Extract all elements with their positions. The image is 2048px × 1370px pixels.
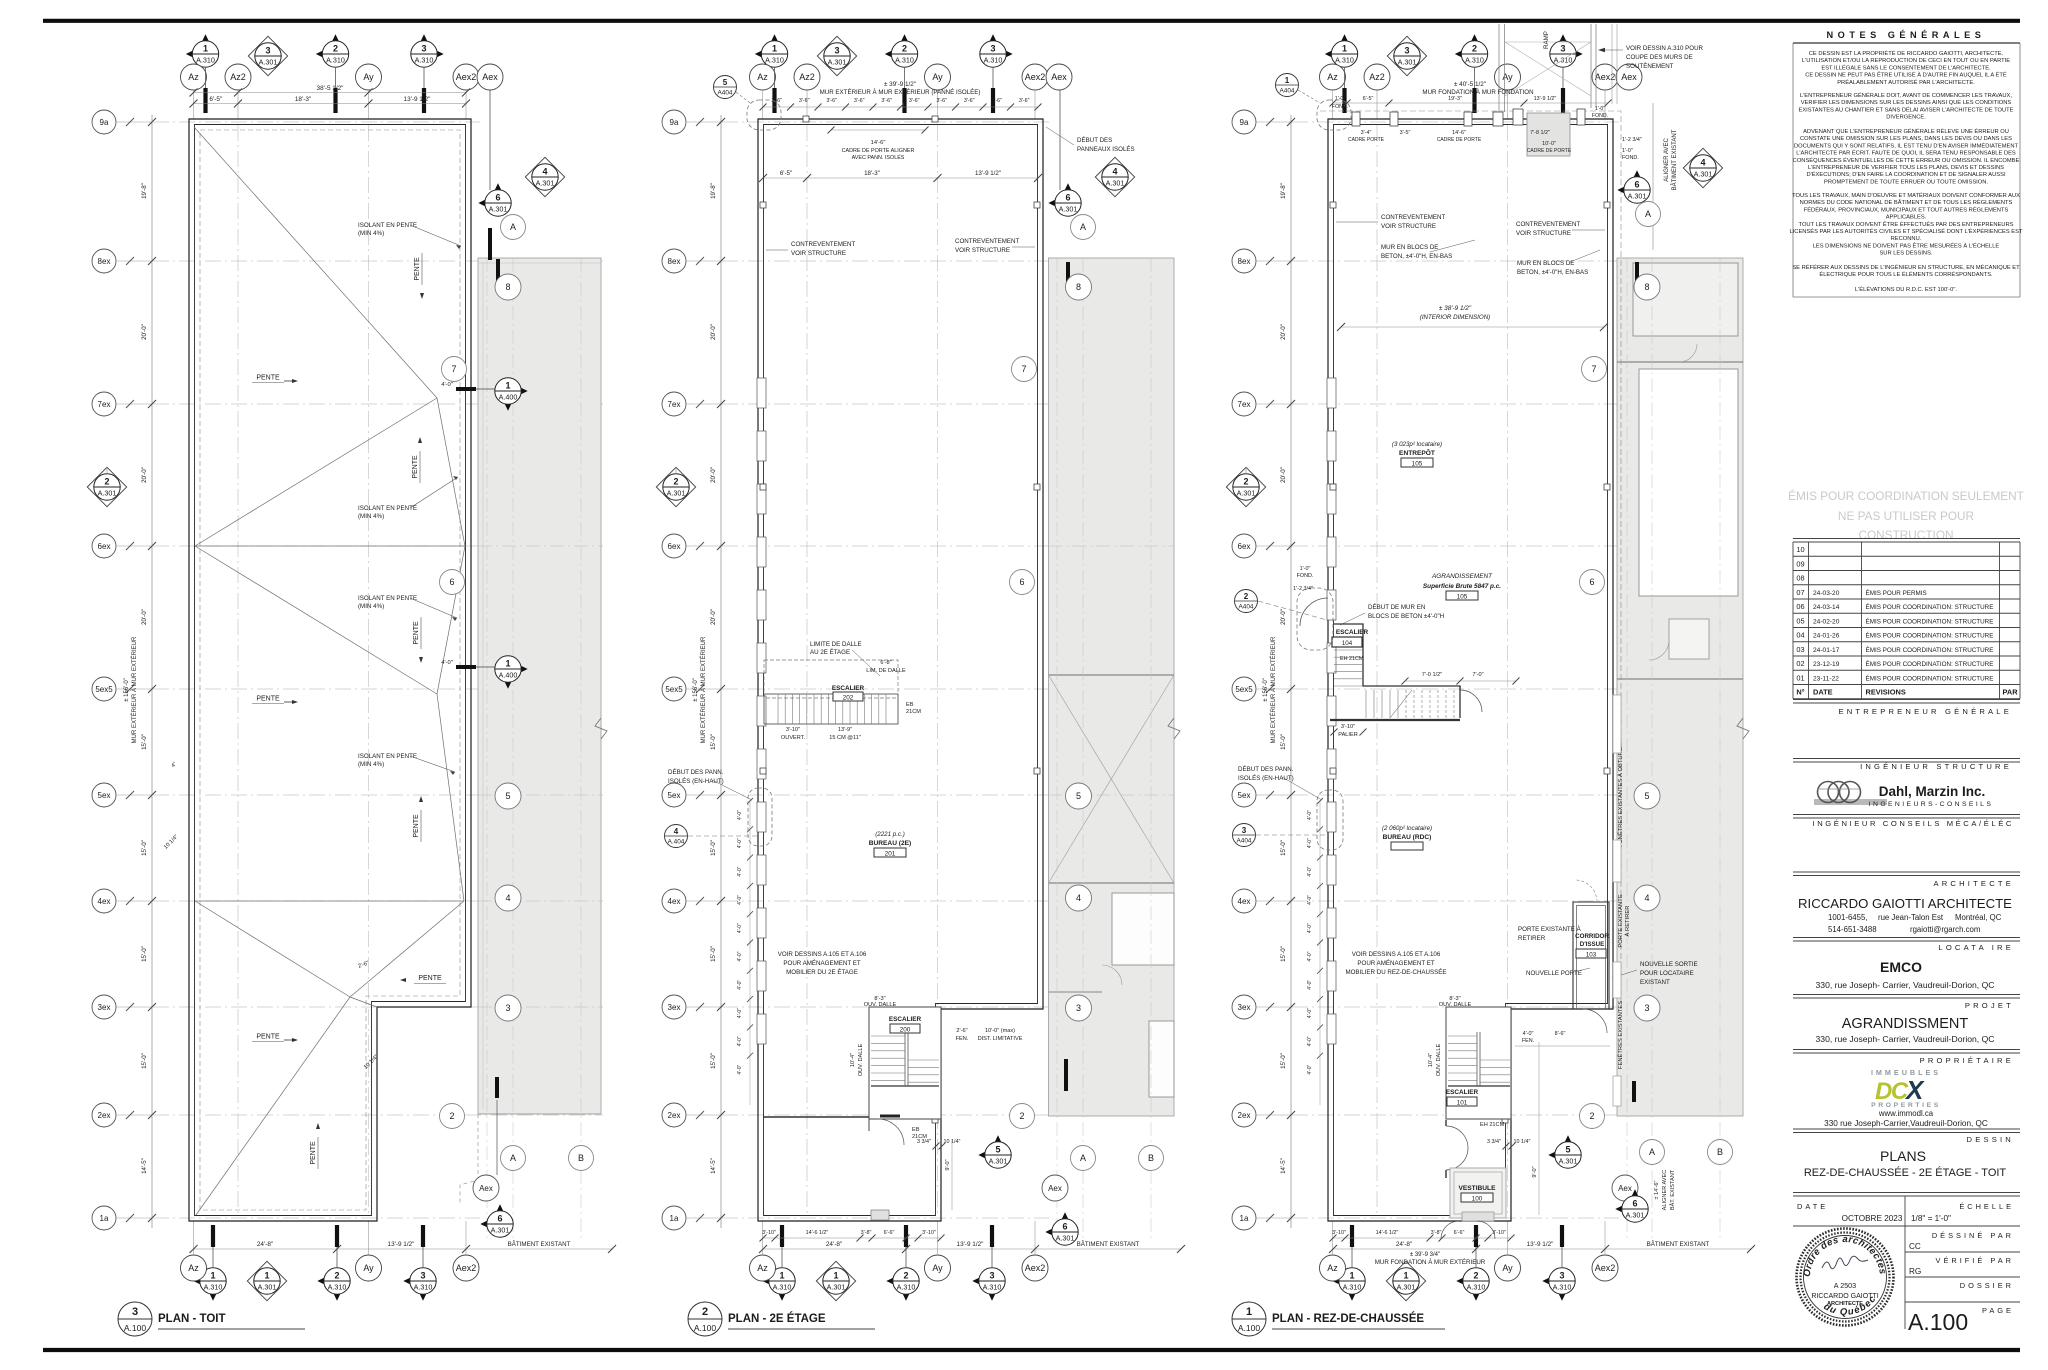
svg-text:ESCALIER: ESCALIER (832, 685, 865, 692)
svg-text:A.310: A.310 (415, 56, 434, 65)
svg-text:FENÊTRES EXISTANTES: FENÊTRES EXISTANTES (1616, 1001, 1624, 1069)
svg-text:FOND.: FOND. (1297, 573, 1314, 579)
svg-text:Az2: Az2 (230, 72, 246, 82)
svg-text:± 156'-0": ± 156'-0" (1263, 678, 1269, 702)
svg-text:8: 8 (1644, 282, 1649, 292)
svg-text:13'-9 1/2": 13'-9 1/2" (1534, 96, 1557, 102)
svg-text:13'-9 1/2": 13'-9 1/2" (957, 1241, 984, 1248)
svg-text:VOIR STRUCTURE: VOIR STRUCTURE (1381, 223, 1436, 230)
svg-text:EH 21CM: EH 21CM (1340, 656, 1364, 662)
svg-text:4'-0": 4'-0" (737, 838, 743, 848)
svg-text:9a: 9a (100, 118, 109, 127)
svg-text:4'-0": 4'-0" (737, 1008, 743, 1018)
svg-text:15'-0": 15'-0" (1280, 840, 1287, 856)
svg-text:OUV. DALLE: OUV. DALLE (864, 1002, 897, 1008)
svg-text:BÂTIMENT EXISTANT: BÂTIMENT EXISTANT (508, 1241, 571, 1248)
svg-text:± 14'-6": ± 14'-6" (1654, 1181, 1660, 1200)
interior vertical grid lines (237, 125, 239, 1215)
svg-text:8'-6": 8'-6" (1555, 1031, 1566, 1037)
svg-text:A.310: A.310 (983, 1283, 1002, 1292)
top grid bubbles (1325, 45, 1345, 64)
svg-text:10'-4": 10'-4" (1428, 1053, 1434, 1067)
svg-text:NORMES DU CODE NATIONAL DE BÂT: NORMES DU CODE NATIONAL DE BÂTIMENT ET D… (1800, 199, 2013, 206)
svg-text:OUV. DALLE: OUV. DALLE (1439, 1002, 1472, 1008)
svg-text:BÂTIMENT EXISTANT: BÂTIMENT EXISTANT (1647, 1241, 1710, 1248)
plan3 right side circles (1582, 357, 1607, 382)
svg-text:6ex: 6ex (98, 542, 111, 551)
svg-text:1: 1 (1403, 1271, 1408, 1281)
svg-text:A.310: A.310 (414, 1283, 433, 1292)
svg-text:3'-10": 3'-10" (786, 727, 800, 733)
plan3 left wall panels (1327, 378, 1336, 408)
svg-text:15'-0": 15'-0" (1280, 1053, 1287, 1069)
svg-text:2: 2 (1473, 1271, 1478, 1281)
svg-text:D'ÉXECUTIONS; D'EN FAIRE LA CO: D'ÉXECUTIONS; D'EN FAIRE LA COORDINATION… (1806, 171, 2006, 178)
svg-text:PROPERTIES: PROPERTIES (1871, 1102, 1941, 1109)
svg-text:10'-0" (max): 10'-0" (max) (985, 1028, 1015, 1034)
svg-text:A.301: A.301 (1106, 179, 1125, 188)
svg-text:15'-0": 15'-0" (710, 1053, 717, 1069)
svg-text:A.301: A.301 (828, 58, 847, 67)
svg-text:4: 4 (542, 167, 547, 177)
svg-text:24'-8": 24'-8" (257, 1241, 273, 1248)
svg-text:7: 7 (1021, 364, 1026, 374)
svg-text:Ay: Ay (1502, 1263, 1513, 1273)
svg-text:15 CM @11": 15 CM @11" (829, 735, 861, 741)
svg-text:DOSSIER: DOSSIER (1960, 1281, 2014, 1290)
plan2 bottom wall door frames (871, 1210, 889, 1220)
svg-text:VOIR DESSINS A.105 ET A.106: VOIR DESSINS A.105 ET A.106 (1352, 951, 1441, 958)
svg-text:PLAN - TOIT: PLAN - TOIT (158, 1313, 226, 1325)
svg-text:5ex5: 5ex5 (1235, 685, 1253, 694)
plan2 stair 200 (869, 1007, 941, 1119)
svg-text:ARCHITECTE: ARCHITECTE (1827, 1301, 1863, 1307)
svg-text:PROPRIÉTAIRE: PROPRIÉTAIRE (1920, 1056, 2014, 1065)
plan3 gray rooms (1633, 263, 1738, 336)
svg-text:3: 3 (989, 1271, 994, 1281)
svg-text:20'-0": 20'-0" (141, 324, 148, 340)
svg-text:A.301: A.301 (1626, 1211, 1645, 1220)
svg-text:1: 1 (779, 1271, 784, 1281)
svg-text:ISOLANT EN PENTE: ISOLANT EN PENTE (358, 753, 417, 760)
svg-text:9a: 9a (670, 118, 679, 127)
svg-text:5: 5 (1565, 1145, 1570, 1155)
svg-text:TOUT LES TRAVAUX DOIVENT ÊTRE: TOUT LES TRAVAUX DOIVENT ÊTRE ÉFFECTUÉS … (1799, 220, 2014, 228)
svg-text:(MIN 4%): (MIN 4%) (358, 761, 384, 768)
svg-text:5: 5 (723, 78, 728, 87)
svg-text:VOIR DESSIN A.310 POUR: VOIR DESSIN A.310 POUR (1626, 45, 1704, 52)
svg-text:2: 2 (1244, 592, 1249, 601)
svg-text:23-11-22: 23-11-22 (1813, 675, 1839, 682)
plan3 gray heavy ticks (1635, 262, 1639, 287)
svg-text:10'-0": 10'-0" (1542, 141, 1556, 147)
svg-text:19'-3": 19'-3" (1448, 96, 1462, 102)
svg-text:2ex: 2ex (1238, 1111, 1251, 1120)
svg-text:20'-0": 20'-0" (141, 609, 148, 625)
svg-text:15'-0": 15'-0" (710, 734, 717, 750)
svg-text:DATE: DATE (1813, 688, 1833, 697)
svg-text:DIST. LIMITATIVE: DIST. LIMITATIVE (978, 1036, 1023, 1042)
svg-text:A.301: A.301 (667, 489, 686, 498)
svg-text:6: 6 (1062, 1222, 1067, 1232)
svg-text:Montréal, QC: Montréal, QC (1955, 913, 2002, 922)
svg-text:± 39'-9 3/4": ± 39'-9 3/4" (1410, 1252, 1440, 1258)
svg-text:24'-8": 24'-8" (1396, 1241, 1412, 1248)
svg-text:6'-6": 6'-6" (884, 1230, 895, 1236)
plan1 roof outline outer (189, 119, 471, 1221)
plan1 top dims (194, 92, 467, 94)
svg-text:SE RÉFÉRER AUX DESSINS DE L'IN: SE RÉFÉRER AUX DESSINS DE L'INGÉNIEUR EN… (1792, 264, 2020, 271)
svg-text:4: 4 (1644, 893, 1649, 903)
svg-text:Aex2: Aex2 (456, 72, 477, 82)
svg-text:4'-0": 4'-0" (1307, 895, 1313, 905)
svg-text:105: 105 (1457, 594, 1468, 601)
plan2 4-0 dim chain (749, 800, 751, 1105)
svg-text:3'-10": 3'-10" (1332, 1230, 1346, 1236)
svg-text:4'-0": 4'-0" (737, 810, 743, 820)
svg-text:Az: Az (1327, 72, 1338, 82)
plan3 gray grid dashes (1626, 258, 1628, 1240)
plan3 gray existing building (1617, 258, 1743, 1116)
svg-text:EB: EB (912, 1127, 920, 1133)
svg-text:3: 3 (990, 44, 995, 54)
svg-text:ADVENANT QUE L'ENTREPRENEUR GÉ: ADVENANT QUE L'ENTREPRENEUR GÉNÉRALE RÉL… (1803, 128, 2009, 135)
plan2 right side circles (1012, 357, 1037, 382)
svg-text:2: 2 (104, 477, 109, 487)
svg-text:5ex5: 5ex5 (95, 685, 113, 694)
svg-text:MUR EN BLOCS DE: MUR EN BLOCS DE (1381, 244, 1438, 251)
svg-text:B: B (1148, 1153, 1154, 1163)
svg-text:Ay: Ay (363, 1263, 374, 1273)
svg-text:L'ARCHITECTE PAR ÉCRIT. FAUTE: L'ARCHITECTE PAR ÉCRIT. FAUTE DE QUOI, I… (1796, 150, 2016, 157)
plan2 5/A.301 + Aex + 6/A.301 (978, 1146, 998, 1165)
svg-text:EXISTANT: EXISTANT (1640, 979, 1670, 986)
notes box (1792, 43, 1794, 297)
svg-text:A.301: A.301 (489, 205, 508, 214)
svg-text:01: 01 (1796, 673, 1804, 682)
svg-text:EST ILLÉGALE SANS LE CONSENTEM: EST ILLÉGALE SANS LE CONSENTEMENT DE L'A… (1821, 64, 1991, 71)
svg-text:1/8" = 1'-0": 1/8" = 1'-0" (1911, 1214, 1951, 1223)
svg-text:3'-6": 3'-6" (881, 98, 892, 104)
svg-text:13'-9 1/2": 13'-9 1/2" (1527, 1241, 1554, 1248)
svg-text:15'-0": 15'-0" (1280, 946, 1287, 962)
svg-text:D'ISSUE: D'ISSUE (1580, 941, 1605, 948)
svg-text:3'-10": 3'-10" (1341, 724, 1355, 730)
svg-text:A.310: A.310 (765, 56, 784, 65)
svg-text:06: 06 (1796, 602, 1804, 611)
svg-text:± 38'-9 1/2": ± 38'-9 1/2" (1439, 305, 1472, 312)
svg-text:3'-6": 3'-6" (826, 98, 837, 104)
svg-text:4'-0": 4'-0" (1307, 810, 1313, 820)
svg-text:4'-0": 4'-0" (737, 923, 743, 933)
svg-text:10 1/4": 10 1/4" (1514, 1139, 1531, 1145)
svg-text:VOIR STRUCTURE: VOIR STRUCTURE (791, 250, 846, 257)
svg-text:3: 3 (1644, 1003, 1649, 1013)
svg-text:4'-0": 4'-0" (1307, 866, 1313, 876)
svg-text:A.404: A.404 (668, 839, 685, 846)
svg-text:VOIR DESSINS A.105 ET A.106: VOIR DESSINS A.105 ET A.106 (778, 951, 867, 958)
section bubble 2/A.301 left (656, 467, 695, 506)
svg-text:OUV. DALLE: OUV. DALLE (1436, 1044, 1442, 1077)
plan1 bottom dims (194, 1248, 613, 1250)
svg-text:(2 060p² locataire): (2 060p² locataire) (1382, 825, 1432, 832)
svg-text:Aex: Aex (1618, 1184, 1632, 1193)
svg-text:CADRE PORTE: CADRE PORTE (1348, 137, 1385, 143)
svg-text:6: 6 (449, 577, 454, 587)
svg-text:6: 6 (1589, 577, 1594, 587)
svg-text:ÉCHELLE: ÉCHELLE (1959, 1202, 2014, 1211)
svg-text:14'-6": 14'-6" (871, 140, 886, 146)
svg-text:Aex2: Aex2 (1025, 72, 1046, 82)
svg-text:DÉBUT DE MUR EN: DÉBUT DE MUR EN (1368, 604, 1425, 611)
plan3 ramp above (1498, 24, 1500, 112)
svg-text:1: 1 (505, 659, 510, 669)
svg-text:4'-0": 4'-0" (737, 1036, 743, 1046)
svg-text:1'-0": 1'-0" (1622, 148, 1633, 154)
svg-text:7: 7 (451, 364, 456, 374)
svg-text:VERIFIER LES DIMENSIONS SUR LE: VERIFIER LES DIMENSIONS SUR LES DESSINS … (1801, 100, 2012, 106)
svg-text:8ex: 8ex (98, 257, 111, 266)
svg-text:(MIN 4%): (MIN 4%) (358, 230, 384, 237)
plan3 1 2 3 /A404 bubbles (1276, 74, 1299, 97)
svg-text:ÉMIS POUR COORDINATION: STRUCT: ÉMIS POUR COORDINATION: STRUCTURE (1866, 631, 1994, 640)
svg-text:9'-0": 9'-0" (1532, 1166, 1538, 1177)
plan3 outline inner (1334, 125, 1608, 1216)
bottom section bars (211, 1225, 215, 1247)
svg-text:MUR EN BLOCS DE: MUR EN BLOCS DE (1517, 260, 1574, 267)
svg-text:A.301: A.301 (1397, 1283, 1416, 1292)
svg-text:(MIN 4%): (MIN 4%) (358, 603, 384, 610)
svg-text:A.310: A.310 (328, 1283, 347, 1292)
svg-text:LIM. DE DALLE: LIM. DE DALLE (866, 668, 906, 674)
svg-text:FEN.: FEN. (956, 1036, 969, 1042)
svg-text:6'-6": 6'-6" (1454, 1230, 1465, 1236)
plan1 roof outline inner (195, 125, 466, 1216)
svg-text:201: 201 (885, 851, 896, 858)
svg-text:3'-8": 3'-8" (1431, 1230, 1442, 1236)
svg-text:2: 2 (702, 1306, 708, 1318)
svg-text:A.301: A.301 (491, 1226, 510, 1235)
svg-text:7'-0": 7'-0" (1472, 672, 1483, 678)
plan3 corridor issue (1573, 902, 1609, 1009)
plan3 stair 104 door + dashed bubble zone (1300, 598, 1328, 626)
svg-text:COUPE DES MURS DE: COUPE DES MURS DE (1626, 54, 1693, 61)
svg-text:PENTE: PENTE (310, 1141, 317, 1165)
svg-text:RAMP: RAMP (1543, 31, 1550, 49)
svg-text:3'-6": 3'-6" (799, 98, 810, 104)
svg-text:MUR EXTÉRIEUR À MUR EXTÉRIEUR: MUR EXTÉRIEUR À MUR EXTÉRIEUR (700, 636, 707, 743)
svg-text:3ex: 3ex (668, 1003, 681, 1012)
svg-text:DÉBUT DES PANN.: DÉBUT DES PANN. (1238, 766, 1294, 773)
svg-text:FOND.: FOND. (1332, 104, 1348, 110)
svg-text:2ex: 2ex (98, 1111, 111, 1120)
svg-text:3 3/4": 3 3/4" (917, 1139, 931, 1145)
svg-text:20'-0": 20'-0" (1280, 609, 1287, 625)
svg-text:4'-0": 4'-0" (737, 951, 743, 961)
svg-text:1a: 1a (1240, 1214, 1249, 1223)
svg-text:104: 104 (1342, 640, 1353, 647)
svg-text:BETON, ±4'-0"H, EN-BAS: BETON, ±4'-0"H, EN-BAS (1381, 253, 1452, 260)
plan2 wall corner squares (760, 202, 766, 208)
plan3 door arc corridor (1583, 1009, 1607, 1033)
plan2 outline inner (764, 125, 1038, 1216)
svg-text:24-01-26: 24-01-26 (1813, 633, 1840, 640)
svg-text:4'-0": 4'-0" (1307, 1008, 1313, 1018)
svg-text:07: 07 (1796, 588, 1804, 597)
svg-text:DESSIN: DESSIN (1967, 1135, 2014, 1144)
plan3 double door to stair (1446, 1126, 1468, 1170)
svg-text:LICENSÉS PAR LES AUTORITÉS CIV: LICENSÉS PAR LES AUTORITÉS CIVILES ET SP… (1790, 228, 2023, 235)
svg-text:7'-8 1/2": 7'-8 1/2" (1530, 130, 1550, 136)
plan3 foundation dashed outline (1320, 111, 1621, 1009)
svg-text:ÉLECTRIQUE POUR TOUS LE ÉLÉMEN: ÉLECTRIQUE POUR TOUS LE ÉLÉMENTS CORRÉSP… (1819, 271, 1993, 278)
svg-text:6ex: 6ex (668, 542, 681, 551)
svg-text:DÉBUT DES: DÉBUT DES (1077, 137, 1112, 144)
svg-text:A.310: A.310 (1553, 1283, 1572, 1292)
svg-text:A404: A404 (718, 90, 733, 97)
svg-text:20'-0": 20'-0" (141, 467, 148, 483)
svg-text:PLANS: PLANS (1880, 1148, 1926, 1164)
svg-text:3: 3 (420, 1271, 425, 1281)
svg-text:5ex: 5ex (98, 791, 111, 800)
top grid lines + section bars (762, 90, 764, 119)
svg-text:OCTOBRE 2023: OCTOBRE 2023 (1842, 1214, 1903, 1223)
svg-text:ISOLÉS (EN-HAUT): ISOLÉS (EN-HAUT) (1238, 775, 1294, 782)
svg-text:9a: 9a (1240, 118, 1249, 127)
svg-text:Aex: Aex (482, 72, 498, 82)
svg-text:7'-0 1/2": 7'-0 1/2" (1422, 672, 1442, 678)
svg-text:5: 5 (995, 1145, 1000, 1155)
svg-text:NE PAS UTILISER POUR: NE PAS UTILISER POUR (1838, 509, 1974, 523)
svg-text:± 156'-0": ± 156'-0" (124, 678, 130, 702)
svg-text:B: B (578, 1153, 584, 1163)
svg-text:rue Jean-Talon Est: rue Jean-Talon Est (1878, 913, 1944, 922)
svg-text:VOIR STRUCTURE: VOIR STRUCTURE (1516, 230, 1571, 237)
svg-text:DATE: DATE (1797, 1202, 1828, 1211)
svg-text:4'-0": 4'-0" (737, 895, 743, 905)
svg-text:5: 5 (1644, 791, 1649, 801)
svg-text:04: 04 (1796, 631, 1804, 640)
svg-text:PLAN - REZ-DE-CHAUSSÉE: PLAN - REZ-DE-CHAUSSÉE (1272, 1312, 1424, 1325)
plan1 A.400 callouts (456, 387, 476, 391)
sheet top border bar (43, 19, 2020, 23)
svg-text:Ay: Ay (932, 1263, 943, 1273)
svg-text:À RETIRER: À RETIRER (1624, 906, 1631, 937)
svg-text:REZ-DE-CHAUSSÉE - 2E ÉTAGE - T: REZ-DE-CHAUSSÉE - 2E ÉTAGE - TOIT (1804, 1166, 2007, 1179)
plan1 Aex circle + 6/A.301 bottom (473, 1175, 499, 1201)
svg-text:4'-0": 4'-0" (1307, 838, 1313, 848)
plan3 top door frames (1527, 113, 1570, 156)
svg-text:Az: Az (188, 72, 199, 82)
svg-text:CE DESSIN EST LA PROPRIÉTÉ DE: CE DESSIN EST LA PROPRIÉTÉ DE RICCARDO G… (1809, 50, 2004, 57)
svg-text:3: 3 (1404, 46, 1409, 56)
svg-text:MUR EXTÉRIEUR À MUR EXTÉRIEUR: MUR EXTÉRIEUR À MUR EXTÉRIEUR (1270, 636, 1277, 743)
svg-text:PROMPTEMENT DE TOUTE ERRUER OU: PROMPTEMENT DE TOUTE ERRUER OU TOUTE OMI… (1824, 179, 1988, 185)
svg-text:3'-6": 3'-6" (991, 98, 1002, 104)
svg-text:2: 2 (902, 44, 907, 54)
revision table (1793, 538, 2020, 540)
svg-text:± 40'-5 1/2": ± 40'-5 1/2" (1454, 81, 1486, 88)
plan1 roof ridge and valley lines (194, 127, 437, 398)
svg-text:5ex: 5ex (668, 791, 681, 800)
svg-text:1a: 1a (670, 1214, 679, 1223)
svg-text:3ex: 3ex (1238, 1003, 1251, 1012)
svg-text:rgaiotti@rgarch.com: rgaiotti@rgarch.com (1910, 925, 1980, 934)
svg-text:7: 7 (1591, 364, 1596, 374)
svg-text:19'-8": 19'-8" (710, 183, 717, 199)
svg-text:6: 6 (497, 1214, 502, 1224)
svg-text:1: 1 (1349, 1271, 1354, 1281)
svg-text:BETON, ±4'-0"H, EN-BAS: BETON, ±4'-0"H, EN-BAS (1517, 269, 1588, 276)
plan1 right edge heavy ticks (496, 259, 500, 284)
svg-text:4: 4 (1112, 167, 1117, 177)
svg-text:N°: N° (1796, 688, 1804, 697)
svg-text:ENTREPÔT: ENTREPÔT (1399, 448, 1435, 457)
svg-text:PENTE: PENTE (412, 455, 419, 479)
top grid lines + section bars (1332, 90, 1334, 119)
svg-text:03: 03 (1796, 645, 1804, 654)
svg-text:8: 8 (1076, 282, 1081, 292)
svg-text:ESCALIER: ESCALIER (889, 1016, 922, 1023)
svg-text:BUREAU (RDC): BUREAU (RDC) (1383, 834, 1432, 841)
svg-text:CONTREVENTEMENT: CONTREVENTEMENT (1516, 221, 1581, 228)
plan1 gray break mark (595, 718, 607, 739)
svg-text:ALIGNER AVEC: ALIGNER AVEC (1662, 1170, 1668, 1211)
svg-text:02: 02 (1796, 659, 1804, 668)
svg-text:A.310: A.310 (196, 56, 215, 65)
svg-text:09: 09 (1796, 559, 1804, 568)
svg-text:24-03-14: 24-03-14 (1813, 604, 1840, 611)
svg-text:POUR LOCATAIRE: POUR LOCATAIRE (1640, 970, 1694, 977)
svg-text:X: X (1904, 1075, 1925, 1105)
svg-text:1: 1 (1342, 44, 1347, 54)
svg-text:ISOLANT EN PENTE: ISOLANT EN PENTE (358, 505, 417, 512)
svg-text:14'-6 1/2": 14'-6 1/2" (1376, 1230, 1399, 1236)
plan2 left wall panels (757, 378, 766, 408)
svg-text:CONSTATE UNE OMISSION SUR LES: CONSTATE UNE OMISSION SUR LES PLANS, DAN… (1800, 136, 2012, 142)
svg-text:A.301: A.301 (1398, 58, 1417, 67)
svg-text:Aex: Aex (1051, 72, 1067, 82)
svg-text:103: 103 (1586, 952, 1597, 959)
svg-text:CONTREVENTEMENT: CONTREVENTEMENT (791, 241, 856, 248)
top grid bubbles (755, 45, 775, 64)
interior vertical grid lines (806, 125, 808, 1215)
svg-text:6: 6 (1632, 1199, 1637, 1209)
svg-text:3'-10": 3'-10" (922, 1230, 936, 1236)
svg-text:BLOCS DE BETON ±4'-0"H: BLOCS DE BETON ±4'-0"H (1368, 613, 1444, 620)
svg-text:FEN.: FEN. (1522, 1038, 1534, 1044)
svg-text:A.400: A.400 (499, 671, 518, 680)
svg-text:PRÉALABLEMENT AUTORISÉ PAR L'A: PRÉALABLEMENT AUTORISÉ PAR L'ARCHITECTE. (1837, 79, 1975, 86)
svg-text:VOIR STRUCTURE: VOIR STRUCTURE (955, 247, 1010, 254)
svg-text:INGÉNIEUR STRUCTURE: INGÉNIEUR STRUCTURE (1860, 762, 2012, 771)
svg-text:1: 1 (203, 44, 208, 54)
svg-text:A: A (510, 1153, 516, 1163)
svg-text:6: 6 (1065, 193, 1070, 203)
plan2 4/A.404 bubble (665, 825, 688, 848)
plan3 vestibule (1450, 1168, 1506, 1218)
svg-text:4'-0": 4'-0" (441, 660, 453, 666)
left dimension chain (1290, 115, 1292, 1228)
svg-text:15'-0": 15'-0" (710, 840, 717, 856)
svg-text:4ex: 4ex (1238, 897, 1251, 906)
svg-text:L'ENTREPRENEUR GÉNÉRALE DOIT,: L'ENTREPRENEUR GÉNÉRALE DOIT, AVANT DE C… (1800, 92, 2012, 99)
svg-text:13'-9": 13'-9" (838, 727, 852, 733)
svg-text:4'-0": 4'-0" (737, 866, 743, 876)
svg-text:PENTE: PENTE (413, 814, 420, 838)
svg-text:TOUS LES TRAVAUX, MAIN D'OEUVR: TOUS LES TRAVAUX, MAIN D'OEUVRE ET MATÉR… (1792, 192, 2020, 199)
svg-text:FOND.: FOND. (1622, 155, 1639, 161)
